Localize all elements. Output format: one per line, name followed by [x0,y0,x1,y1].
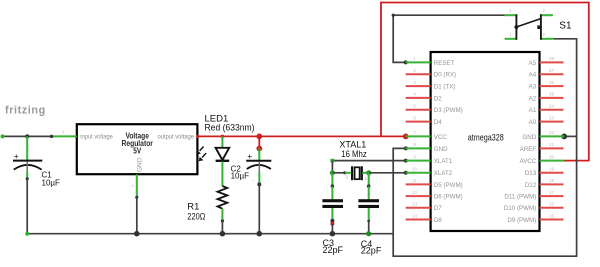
svg-text:fritzing: fritzing [5,104,46,116]
wire VCC loop (red border) [381,3,589,161]
pin 23 A0 [529,115,564,126]
svg-text:D5 (PWM): D5 (PWM) [434,182,463,189]
svg-text:RESET: RESET [434,60,455,67]
node VCC junction [403,134,409,140]
svg-text:A0: A0 [529,119,537,126]
svg-text:2: 2 [543,32,546,37]
capacitor C4 [358,173,381,256]
svg-text:2: 2 [130,184,135,187]
pin 24 A1 [529,104,564,115]
svg-text:D6 (PWM): D6 (PWM) [434,194,463,201]
svg-text:+: + [247,151,252,161]
pin 27 A4 [529,68,564,79]
svg-text:D3 (PWM): D3 (PWM) [434,107,463,114]
svg-text:input voltage: input voltage [80,134,113,141]
pin 19 D13 [525,167,564,178]
svg-text:atmega328: atmega328 [468,132,504,142]
svg-text:D4: D4 [434,119,442,126]
pin 14 D8 [406,213,443,224]
svg-text:7: 7 [413,130,416,135]
svg-text:19: 19 [549,167,555,172]
svg-text:6: 6 [413,115,416,120]
svg-text:D12: D12 [525,182,537,189]
wire RESET to S1 [392,14,505,65]
capacitor C3 [322,173,343,255]
pin 1 RESET [406,56,455,67]
pin 17 D11 (PWM) [504,190,563,201]
svg-text:28: 28 [549,56,555,61]
svg-text:XLAT1: XLAT1 [434,158,453,165]
wire output net 5V [196,130,406,139]
svg-text:-: - [252,178,254,184]
svg-text:1: 1 [62,129,65,134]
svg-text:Red (633nm): Red (633nm) [205,123,255,134]
svg-text:XLAT2: XLAT2 [434,170,453,177]
svg-text:A5: A5 [529,60,537,67]
pin 18 D12 [525,178,564,189]
svg-text:D11 (PWM): D11 (PWM) [504,194,536,201]
pin 21 AREF [520,142,564,153]
pin 20 AVCC [519,154,564,165]
svg-text:1: 1 [509,8,512,13]
switch S1 [505,8,572,40]
node C2 junction on 5V wire [256,134,262,140]
svg-text:D10 (PWM): D10 (PWM) [504,205,536,212]
svg-text:output voltage: output voltage [158,134,195,141]
svg-text:-: - [20,178,22,184]
pin 13 D7 [406,202,443,213]
pin 26 A3 [529,80,564,91]
pin 12 D6 (PWM) [406,190,463,201]
pin 3 D1 (TX) [406,80,456,91]
svg-text:5: 5 [413,104,416,109]
resistor R1 [187,186,227,237]
svg-text:26: 26 [549,80,555,85]
wire GND net: pin8 to rail, bottom run, up to S1 [393,39,576,256]
svg-text:D0 (RX): D0 (RX) [434,72,456,79]
svg-text:A4: A4 [529,72,537,79]
svg-text:1: 1 [365,176,368,181]
LED LED1 [196,113,254,186]
svg-text:8: 8 [413,142,416,147]
svg-text:D1 (TX): D1 (TX) [434,84,456,91]
svg-text:D9 (PWM): D9 (PWM) [507,217,536,224]
svg-text:24: 24 [549,104,555,109]
svg-text:22: 22 [549,130,555,135]
svg-text:1: 1 [509,32,512,37]
svg-text:10: 10 [412,167,418,172]
svg-text:A2: A2 [529,95,537,102]
pin 22 GND [522,130,564,141]
svg-text:22pF: 22pF [323,245,344,255]
svg-text:2: 2 [413,68,416,73]
svg-text:GND: GND [137,157,144,172]
pin 5 D3 (PWM) [406,104,463,115]
pin 2 D0 (RX) [406,68,456,79]
pin 4 D2 [406,92,443,103]
svg-text:AVCC: AVCC [519,158,536,165]
IC atmega328 [431,52,540,231]
pin 11 D5 (PWM) [406,178,463,189]
capacitor C1 [13,136,60,187]
svg-text:A3: A3 [529,84,537,91]
regulator input pin stub 1 [50,129,77,138]
svg-text:10µF: 10µF [42,178,61,187]
pin 16 D10 (PWM) [504,202,564,213]
voltage regulator [77,124,198,174]
svg-text:12: 12 [412,190,418,195]
svg-text:9: 9 [413,154,416,159]
pin 28 A5 [529,56,564,67]
svg-text:10µF: 10µF [231,172,250,181]
svg-text:23: 23 [549,115,555,120]
pin 10 XLAT2 [406,167,453,178]
svg-text:22pF: 22pF [361,246,382,256]
capacitor C2 [231,136,272,236]
ground rail [25,232,393,236]
svg-text:15: 15 [549,213,555,218]
svg-text:11: 11 [412,178,417,183]
svg-text:D2: D2 [434,95,442,102]
svg-text:18: 18 [549,178,555,183]
svg-text:1: 1 [413,56,416,61]
svg-text:GND: GND [434,146,448,153]
svg-text:25: 25 [549,92,555,97]
pin 9 XLAT1 [406,154,453,165]
svg-text:A1: A1 [529,107,537,114]
svg-text:GND: GND [522,134,536,141]
pin 6 D4 [406,115,443,126]
svg-text:220Ω: 220Ω [187,212,205,223]
wire input net [1,134,52,138]
svg-text:21: 21 [549,142,555,147]
svg-text:16: 16 [549,202,555,207]
wire C1 to ground rail [26,179,28,234]
svg-text:S1: S1 [559,21,572,32]
svg-text:16 Mhz: 16 Mhz [341,149,367,160]
svg-text:4: 4 [413,92,416,97]
pin 8 GND [406,142,448,153]
svg-text:14: 14 [412,213,418,218]
wire GND pin22 link [561,134,576,140]
svg-text:3: 3 [413,80,416,85]
svg-text:D8: D8 [434,217,442,224]
svg-text:5V: 5V [133,146,142,155]
svg-text:D7: D7 [434,205,442,212]
regulator GND pin stub 2 [130,174,140,236]
svg-text:2: 2 [543,8,546,13]
svg-text:+: + [14,151,19,161]
svg-text:D13: D13 [525,170,537,177]
pin 15 D9 (PWM) [507,213,563,224]
svg-text:20: 20 [549,154,555,159]
svg-text:17: 17 [549,190,555,195]
svg-text:27: 27 [549,68,555,73]
svg-text:2: 2 [346,175,349,180]
crystal XTAL1 [330,140,408,181]
pin 25 A2 [529,92,564,103]
svg-text:13: 13 [412,202,418,207]
svg-text:VCC: VCC [434,134,448,141]
node input-C1 junction [25,134,29,138]
pin 7 VCC [406,130,448,141]
svg-text:AREF: AREF [520,146,537,153]
